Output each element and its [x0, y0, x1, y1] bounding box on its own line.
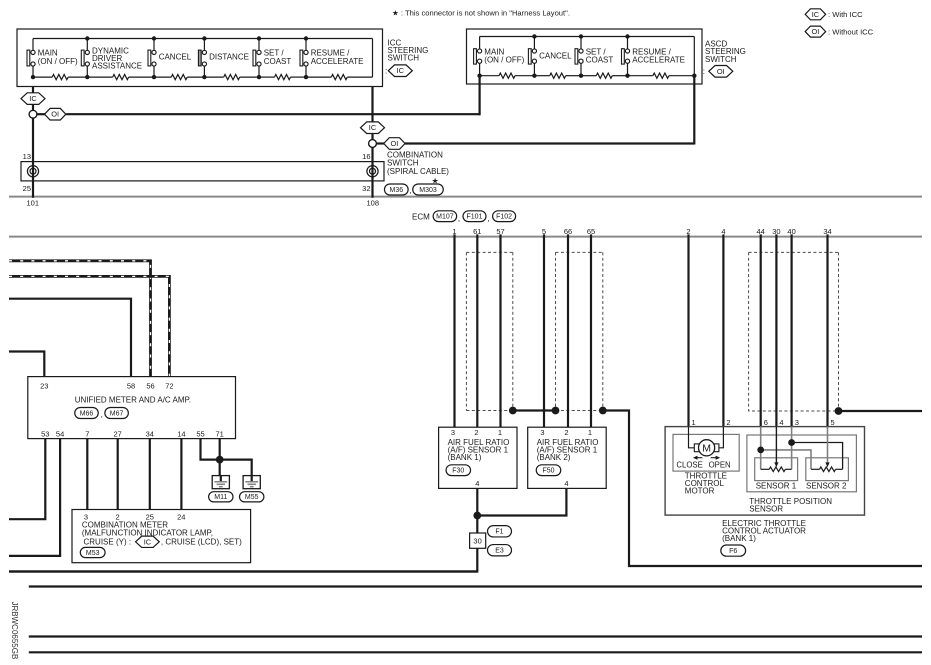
wire: meter 53 to left — [9, 439, 45, 520]
wire: continuation line full row — [29, 585, 922, 587]
svg-text:SENSOR: SENSOR — [749, 504, 783, 513]
connector M36 — [384, 184, 408, 195]
wire: through connector 30 to left — [9, 548, 477, 571]
svg-text:SWITCH: SWITCH — [388, 53, 420, 62]
shield (throttle position sensor wires) — [749, 252, 839, 411]
ICC steering switch box — [17, 29, 383, 87]
svg-text:SENSOR 1: SENSOR 1 — [756, 481, 797, 490]
svg-text:M11: M11 — [214, 494, 227, 501]
electric throttle control actuator box — [665, 427, 864, 515]
svg-text:IC: IC — [29, 94, 37, 103]
svg-text:2: 2 — [474, 428, 478, 437]
connector F50 — [536, 465, 561, 476]
switch: ICC RESUME //ACCELERATE — [300, 36, 363, 79]
wire: meter 7 to comb meter 3 — [86, 439, 88, 510]
svg-text:F6: F6 — [729, 548, 737, 555]
svg-text:UNIFIED METER AND A/C AMP.: UNIFIED METER AND A/C AMP. — [75, 396, 191, 405]
svg-text:55: 55 — [196, 430, 204, 439]
wire: motor pin2 lead — [719, 427, 724, 448]
throttle control motor inner box — [673, 434, 739, 471]
svg-text:CANCEL: CANCEL — [539, 51, 572, 60]
connector M67 — [105, 408, 129, 419]
node: pin3 ground split — [788, 439, 795, 446]
svg-text:(ON / OFF): (ON / OFF) — [484, 55, 524, 64]
svg-text:M55: M55 — [245, 494, 259, 501]
label: AIR FUEL RATIO (A/F) SENSOR 1 (BANK 1) — [448, 438, 510, 462]
svg-text:23: 23 — [40, 382, 48, 391]
svg-text::: : — [703, 67, 705, 76]
wire (shielded): to meter pin 72 — [9, 276, 169, 376]
wire: OI bus to ASCD right output — [405, 142, 694, 144]
wire: ASCD top rail — [480, 36, 695, 38]
svg-text:E3: E3 — [495, 548, 504, 555]
svg-text:OI: OI — [51, 110, 59, 119]
switch: ASCD SET //COAST — [575, 34, 613, 78]
wire: to meter pin 23 — [9, 352, 44, 377]
svg-text:24: 24 — [177, 512, 185, 521]
svg-text:M53: M53 — [86, 550, 100, 557]
svg-text:COAST: COAST — [264, 57, 292, 66]
connector M303 — [413, 184, 444, 195]
resistor (ASCD ladder 1) — [499, 73, 515, 78]
svg-text:(BANK 1): (BANK 1) — [448, 453, 482, 462]
switch: ICC MAIN/(ON / OFF) — [27, 39, 78, 80]
svg-text:M66: M66 — [80, 410, 94, 417]
wire: ground link to sensor 2 — [792, 443, 843, 470]
wire: shield link sensor1-sensor2 — [513, 409, 556, 411]
wiper sensor 2 (pin 5) — [825, 427, 829, 468]
connector symbol IC (comb meter) — [136, 536, 160, 547]
unified meter and A/C amp box — [28, 377, 236, 439]
node: pin6 supply split — [757, 447, 764, 454]
wire: continuation line row 3 — [29, 635, 922, 637]
air fuel ratio sensor 1 (bank 1) box — [439, 427, 517, 488]
connector M66 — [75, 408, 99, 419]
ground M55 — [243, 476, 260, 489]
svg-text:3: 3 — [540, 428, 544, 437]
svg-text:★ : This connector is not show: ★ : This connector is not shown in "Harn… — [392, 9, 570, 18]
svg-text:32: 32 — [362, 184, 370, 193]
wire: OI bus to ASCD MAIN — [66, 113, 480, 115]
svg-text:ACCELERATE: ACCELERATE — [632, 55, 685, 64]
connector F1 — [488, 526, 512, 537]
svg-text:IC: IC — [397, 66, 405, 75]
switch: ICC CANCEL — [148, 36, 192, 79]
legend OI = Without ICC — [805, 26, 874, 37]
svg-text:SWITCH: SWITCH — [705, 55, 737, 64]
svg-text:OPEN: OPEN — [709, 460, 731, 469]
potentiometer sensor 2 — [811, 467, 843, 472]
connector F6 — [721, 545, 746, 556]
svg-text:58: 58 — [127, 382, 135, 391]
resistor (ASCD ladder 3) — [596, 73, 612, 78]
wire: TPS shield drain to right — [839, 410, 923, 412]
spiral symbol (pin 13-25) — [27, 166, 38, 177]
resistor (ICC ladder 3) — [171, 75, 187, 80]
wire: supply link to sensor 2 — [761, 450, 811, 469]
ASCD steering switch box — [467, 29, 703, 84]
connector symbol IC (left) — [21, 93, 45, 105]
svg-text:72: 72 — [165, 382, 173, 391]
wire: ECM 40 to TPS pin 3 — [790, 234, 792, 426]
connector M55 — [240, 492, 264, 502]
wire: meter 55 to ground junction — [201, 439, 220, 460]
resistor (ICC ladder 1) — [52, 75, 68, 80]
ECM upper boundary line — [9, 196, 922, 198]
wire: meter 27 to comb meter 2 — [117, 439, 119, 510]
wiper sensor 1 (pin 4) — [774, 427, 778, 468]
node: shield end (sensor1) — [509, 407, 517, 415]
arrow CLOSE (left) — [693, 456, 703, 460]
svg-text:M: M — [702, 443, 711, 455]
svg-text:IC: IC — [144, 537, 152, 546]
node: shield end (sensor2 left) — [552, 407, 560, 415]
junction node (55/71 grounds) — [216, 456, 224, 464]
svg-text:IC: IC — [812, 10, 820, 19]
wire: junction to ground M55 — [220, 460, 252, 482]
connector symbol OI (left) — [45, 108, 66, 120]
resistor (ICC ladder 2) — [113, 75, 129, 80]
wire: ECM 34 to TPS pin 5 — [826, 234, 828, 426]
resistor (ICC ladder 6) — [331, 75, 347, 80]
wire: ECM 30 to TPS pin 4 — [775, 234, 777, 426]
switch: ICC DISTANCE — [198, 36, 249, 79]
wire: ECM 4 to motor pin 2 — [722, 234, 724, 426]
svg-text:14: 14 — [177, 430, 185, 439]
wire: ECM 2 to motor pin 1 — [687, 234, 689, 426]
node: shield end (sensor2 right) — [599, 407, 607, 415]
potentiometer sensor 1 — [761, 467, 792, 472]
wire: junction circle to OI (left) — [37, 113, 45, 115]
junction circle (left, with/without ICC split) — [29, 110, 37, 118]
connector symbol OI (right) — [384, 138, 405, 150]
switch: ASCD MAIN/(ON / OFF) — [474, 37, 525, 78]
svg-text:,: , — [409, 186, 411, 195]
svg-text:,: , — [101, 410, 103, 419]
svg-text:2: 2 — [726, 418, 730, 427]
sensor 2 box — [806, 458, 849, 481]
svg-text:108: 108 — [367, 198, 380, 207]
svg-text:F30: F30 — [452, 468, 464, 475]
wire: shield drain to ground line — [603, 411, 922, 567]
svg-text:(BANK 2): (BANK 2) — [537, 453, 571, 462]
legend IC = With ICC — [805, 9, 863, 20]
switch: ASCD RESUME //ACCELERATE — [622, 34, 685, 78]
wire: continuation line row 4 — [29, 651, 922, 653]
connector M11 — [209, 492, 233, 502]
switch: ASCD CANCEL — [528, 34, 572, 78]
wire: ASCD right-end vertical — [693, 37, 695, 76]
svg-text:IC: IC — [369, 123, 377, 132]
label: COMBINATION SWITCH (SPIRAL CABLE) — [387, 151, 449, 186]
svg-text:: With ICC: : With ICC — [828, 10, 863, 19]
switch: ICC DYNAMIC/DRIVER/ASSISTANCE — [81, 36, 142, 79]
ground M11 — [212, 476, 229, 489]
label: COMBINATION METER — [82, 520, 213, 546]
svg-text:56: 56 — [146, 382, 154, 391]
resistor (ASCD ladder 4) — [653, 73, 669, 78]
shield (A/F sensor 2 wires) — [556, 252, 603, 410]
connector symbol IC (right) — [361, 122, 385, 134]
svg-text:1: 1 — [692, 418, 696, 427]
svg-text::: : — [385, 66, 387, 75]
sensor 1 box — [755, 458, 798, 481]
wire: sensor2 pin4 to junction — [477, 488, 566, 515]
connector 30 (F1/E3) — [470, 533, 486, 548]
wire: ICC MAIN output down from box — [32, 87, 34, 198]
wire: sensor1 pin4 down — [476, 488, 478, 533]
svg-text:4: 4 — [475, 479, 479, 488]
svg-text:: Without ICC: : Without ICC — [828, 27, 874, 36]
label: THROTTLE CONTROL MOTOR — [685, 471, 727, 495]
svg-text:71: 71 — [216, 430, 224, 439]
svg-text:F1: F1 — [495, 529, 503, 536]
svg-text:25: 25 — [23, 184, 31, 193]
wire: ECM 44 to TPS pin 6 — [760, 234, 762, 426]
svg-text:6: 6 — [764, 418, 768, 427]
resistor (ASCD ladder 2) — [550, 73, 566, 78]
connector F102 — [493, 211, 516, 222]
svg-text:CLOSE: CLOSE — [676, 460, 702, 469]
svg-text:MOTOR: MOTOR — [685, 486, 715, 495]
wire: ICC right output down from box — [371, 87, 373, 198]
switch: ICC SET //COAST — [253, 36, 291, 79]
wire: ICC top rail — [33, 38, 373, 40]
junction circle (right) — [369, 140, 377, 148]
ECM lower boundary line — [9, 236, 922, 238]
svg-text:27: 27 — [114, 430, 122, 439]
wire: ASCD bottom rail with resistor ladder — [480, 75, 499, 77]
svg-text:(SPIRAL CABLE): (SPIRAL CABLE) — [387, 167, 449, 176]
svg-text:SENSOR 2: SENSOR 2 — [806, 481, 847, 490]
svg-text:30: 30 — [473, 536, 481, 545]
svg-text:3: 3 — [795, 418, 799, 427]
svg-text:53: 53 — [41, 430, 49, 439]
wire: TPS supply pin 6 (internal) — [760, 427, 762, 470]
svg-text:3: 3 — [451, 428, 455, 437]
resistor (ICC ladder 5) — [275, 75, 291, 80]
svg-text:5: 5 — [831, 418, 835, 427]
svg-text:M36: M36 — [389, 187, 403, 194]
node: sensor grounds joined — [473, 512, 481, 520]
label: ELECTRIC THROTTLE CONTROL ACTUATOR (BANK 1) — [722, 519, 806, 543]
svg-text:M67: M67 — [110, 410, 124, 417]
svg-text:54: 54 — [56, 430, 64, 439]
svg-text:OI: OI — [811, 27, 819, 36]
wire: ECM 1 to A/F sensor1 pin 3 — [453, 234, 455, 427]
svg-text:DISTANCE: DISTANCE — [209, 53, 249, 62]
combination switch (spiral cable) box — [21, 162, 384, 181]
svg-text:OI: OI — [390, 139, 398, 148]
label: ICC STEERING SWITCH — [385, 39, 428, 77]
svg-text:13: 13 — [23, 152, 31, 161]
svg-text:CRUISE (Y) :: CRUISE (Y) : — [84, 538, 132, 547]
wire: ICC right-end vertical — [372, 39, 374, 78]
connector E3 — [488, 545, 512, 556]
wire: meter 71 to ground M11 — [219, 439, 221, 482]
connector M107 — [433, 211, 457, 222]
svg-text:JRBWC0655GB: JRBWC0655GB — [10, 602, 19, 660]
wire: ECM 57 to A/F sensor1 pin 1 — [499, 234, 501, 427]
label: THROTTLE POSITION SENSOR — [749, 497, 832, 514]
wire: meter 34 to comb meter 25 — [149, 439, 151, 510]
svg-text:CANCEL: CANCEL — [159, 53, 192, 62]
wire: ECM 65 to A/F sensor2 pin 1 — [590, 234, 592, 427]
svg-text:F102: F102 — [496, 214, 512, 221]
throttle position sensor inner box — [747, 435, 857, 492]
label: ECM connectors — [412, 212, 430, 221]
svg-text:OI: OI — [717, 67, 725, 76]
svg-text:2: 2 — [564, 428, 568, 437]
svg-text:COAST: COAST — [586, 55, 614, 64]
label: ASCD STEERING SWITCH — [703, 39, 746, 77]
svg-text:7: 7 — [85, 430, 89, 439]
shield (A/F sensor 1 wires) — [466, 252, 512, 410]
svg-text:16: 16 — [362, 152, 370, 161]
svg-text:101: 101 — [27, 198, 40, 207]
svg-text:, CRUISE (LCD), SET): , CRUISE (LCD), SET) — [161, 538, 242, 547]
connector F30 — [446, 465, 471, 476]
svg-text:ECM: ECM — [412, 212, 430, 221]
svg-text:M107: M107 — [436, 214, 454, 221]
svg-text:4: 4 — [779, 418, 783, 427]
svg-text:F50: F50 — [542, 468, 554, 475]
svg-text:4: 4 — [564, 479, 568, 488]
svg-text:,: , — [487, 214, 489, 223]
svg-text:ACCELERATE: ACCELERATE — [311, 57, 364, 66]
wire: ICC bottom rail with resistor ladder — [33, 76, 52, 78]
wire: continuation line (row 2 left) — [9, 570, 477, 572]
svg-text:(BANK 1): (BANK 1) — [722, 534, 756, 543]
svg-text:(ON / OFF): (ON / OFF) — [38, 57, 78, 66]
combination meter box — [72, 510, 251, 563]
label: AIR FUEL RATIO (A/F) SENSOR 1 (BANK 2) — [537, 438, 599, 462]
spiral symbol (pin 16-32) — [367, 166, 378, 177]
wire: junction circle to OI (right) — [376, 142, 384, 144]
svg-text:34: 34 — [146, 430, 154, 439]
wire: to meter pin 58 — [9, 299, 131, 377]
motor M — [694, 440, 719, 456]
svg-text:1: 1 — [588, 428, 592, 437]
wire: meter 14 to comb meter 24 — [180, 439, 182, 510]
svg-text:,: , — [458, 214, 460, 223]
wire: ECM 5 to A/F sensor2 pin 3 — [543, 234, 545, 427]
wire: meter 54 to left — [9, 439, 60, 556]
connector F101 — [463, 211, 486, 222]
svg-text:1: 1 — [498, 428, 502, 437]
air fuel ratio sensor 1 (bank 2) box — [528, 427, 607, 488]
wire: motor pin1 lead — [689, 427, 695, 448]
svg-text:ASSISTANCE: ASSISTANCE — [92, 62, 142, 71]
wire: ECM 61 to A/F sensor1 pin 2 — [476, 234, 478, 427]
node: TPS shield end — [835, 407, 843, 415]
wire: ECM 66 to A/F sensor2 pin 2 — [567, 234, 569, 427]
resistor (ICC ladder 4) — [224, 75, 240, 80]
connector M53 — [80, 547, 105, 557]
wire: TPS ground pin 3 (internal) — [791, 427, 793, 470]
wire (shielded): to meter pin 56 — [9, 261, 151, 377]
svg-text:M303: M303 — [419, 187, 437, 194]
svg-text:F101: F101 — [467, 214, 483, 221]
arrow OPEN (right) — [711, 456, 721, 460]
